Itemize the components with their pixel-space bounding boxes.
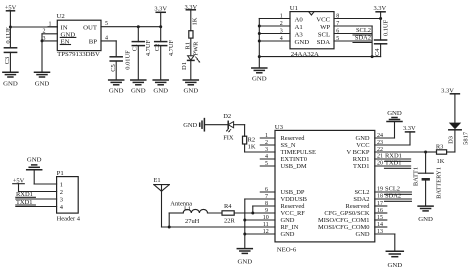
svg-text:L1: L1 xyxy=(184,205,191,212)
ground (under C1) xyxy=(131,80,146,95)
pin 2 U1 A1 xyxy=(259,21,290,27)
svg-text:5: 5 xyxy=(265,161,268,167)
svg-text:GND: GND xyxy=(183,88,198,95)
pin 11 U3 xyxy=(263,222,269,228)
svg-text:1K: 1K xyxy=(248,144,256,151)
wire U3 pin8 tie to VCC_RF xyxy=(251,206,275,215)
node TXD1 net label (header) xyxy=(16,199,57,207)
svg-text:4.7UF: 4.7UF xyxy=(168,39,175,56)
svg-text:1: 1 xyxy=(60,181,63,188)
svg-text:1K: 1K xyxy=(192,17,199,25)
capacitor C1 4.7UF xyxy=(132,27,152,80)
svg-text:2: 2 xyxy=(43,29,46,35)
svg-text:C3: C3 xyxy=(4,57,11,65)
svg-text:RXD1: RXD1 xyxy=(353,156,370,163)
svg-text:TPS79133DBV: TPS79133DBV xyxy=(57,51,100,58)
svg-text:4: 4 xyxy=(265,154,268,160)
svg-text:VCC_RF: VCC_RF xyxy=(281,210,306,217)
svg-text:R4: R4 xyxy=(224,203,232,210)
svg-text:0.01UF: 0.01UF xyxy=(124,50,131,70)
ground (under C5) xyxy=(109,80,124,95)
wire U3 VDDUSB/GND bus xyxy=(243,199,275,248)
svg-text:NEO-6: NEO-6 xyxy=(277,247,297,254)
svg-text:BATTERY1: BATTERY1 xyxy=(436,167,443,199)
wire U3 pin12 GND xyxy=(245,233,275,235)
pin 14 U3 xyxy=(375,222,387,228)
svg-text:D2: D2 xyxy=(223,113,231,120)
svg-text:U1: U1 xyxy=(290,5,298,12)
svg-text:GND: GND xyxy=(3,81,18,88)
pin 10 U3 xyxy=(263,215,269,221)
svg-text:SDA: SDA xyxy=(317,39,331,46)
svg-text:U2: U2 xyxy=(57,13,65,20)
svg-text:VCC: VCC xyxy=(356,142,369,149)
svg-text:C5: C5 xyxy=(110,64,117,72)
svg-text:MISO/CFG_COM1: MISO/CFG_COM1 xyxy=(318,217,370,224)
wire R2 to U3 TIMEPULSE xyxy=(245,151,275,153)
svg-text:OUT: OUT xyxy=(83,24,98,31)
pin 24 U3 GND xyxy=(375,122,395,139)
ground (under C2) xyxy=(153,80,168,95)
power 3.3V (R1 branch) xyxy=(184,4,197,31)
svg-text:SCL2: SCL2 xyxy=(385,186,400,193)
svg-text:GND: GND xyxy=(356,231,370,238)
capacitor C5 0.01UF xyxy=(110,50,131,80)
capacitor C3 0.1UF xyxy=(4,27,17,72)
wire GND to P1 pin1 xyxy=(34,183,56,185)
pin 12 U3 xyxy=(263,229,269,235)
pin 2 U2 xyxy=(42,29,57,35)
wire U3 pin10 GND xyxy=(245,219,275,221)
IC U1 24AA32A xyxy=(290,5,334,58)
svg-text:C4: C4 xyxy=(374,48,381,56)
svg-text:A1: A1 xyxy=(295,24,303,31)
svg-text:SCL: SCL xyxy=(318,31,330,38)
svg-text:3.3V: 3.3V xyxy=(403,125,416,132)
op-amp U2 TPS79133DBV regulator box xyxy=(57,13,102,58)
svg-text:22R: 22R xyxy=(224,217,235,224)
pin 7 U3 xyxy=(265,194,268,200)
svg-text:GND: GND xyxy=(281,217,295,224)
svg-text:6: 6 xyxy=(336,28,339,34)
power 3.3V (above OUT rail) xyxy=(154,6,167,27)
svg-text:18: 18 xyxy=(377,194,383,200)
svg-text:IN: IN xyxy=(61,24,68,31)
ground (above U3 pin24) xyxy=(387,110,402,122)
resistor R2 1K xyxy=(243,136,256,152)
node +5V rail junction xyxy=(9,26,12,29)
svg-text:20: 20 xyxy=(377,161,383,167)
svg-text:GND: GND xyxy=(183,122,197,129)
pin 5 U2 OUT wire xyxy=(101,21,161,27)
diode D3 5817 xyxy=(447,94,469,152)
svg-text:5: 5 xyxy=(336,36,339,42)
svg-text:D1: D1 xyxy=(181,62,188,70)
svg-text:A3: A3 xyxy=(295,31,304,38)
svg-text:GND: GND xyxy=(35,81,50,88)
node RXD1 net label (header) xyxy=(16,191,57,199)
svg-text:SDA2: SDA2 xyxy=(385,193,401,200)
pin 9 U3 xyxy=(265,208,268,214)
pin 3 U1 A3 xyxy=(259,28,290,34)
svg-text:TIMEPULSE: TIMEPULSE xyxy=(281,149,316,156)
svg-text:0.1UF: 0.1UF xyxy=(5,27,12,44)
svg-text:RF_IN: RF_IN xyxy=(281,224,299,231)
resistor R3 1K xyxy=(436,144,455,166)
pin 15 U3 xyxy=(375,215,387,221)
svg-text:Reserved: Reserved xyxy=(281,135,306,142)
svg-text:FIX: FIX xyxy=(223,135,234,142)
svg-text:2: 2 xyxy=(280,21,283,27)
svg-text:3: 3 xyxy=(265,147,268,153)
svg-text:5817: 5817 xyxy=(462,131,469,145)
ground (rotated, at D2) xyxy=(183,119,204,131)
svg-text:7: 7 xyxy=(336,21,339,27)
svg-text:CFG_GPS0/SCK: CFG_GPS0/SCK xyxy=(324,210,369,217)
ground (under C3) xyxy=(3,72,18,87)
svg-text:RXD1: RXD1 xyxy=(385,153,402,160)
node OUT/C1 xyxy=(137,25,140,28)
node OUT/C2/3.3V xyxy=(159,25,162,28)
resistor R1 1K xyxy=(185,17,200,55)
svg-text:27uH: 27uH xyxy=(185,218,200,225)
pin 19 U3 SCL2 xyxy=(375,186,412,195)
power 3.3V (D3 anode) xyxy=(441,88,459,95)
pin 6 U3 xyxy=(260,187,275,193)
connector P1 Header 4 xyxy=(57,170,81,222)
svg-text:GND: GND xyxy=(109,88,124,95)
pin 4 U1 GND xyxy=(259,36,290,42)
pin 18 U3 SDA2 xyxy=(375,193,412,202)
svg-text:C1: C1 xyxy=(132,44,139,52)
capacitor C4 0.1UF xyxy=(374,19,390,57)
svg-text:4: 4 xyxy=(280,36,283,42)
svg-text:TXD1: TXD1 xyxy=(385,160,401,167)
svg-text:VDDUSB: VDDUSB xyxy=(281,196,307,203)
power 3.3V (U3 VCC) xyxy=(403,125,416,132)
antenna E1 xyxy=(154,177,170,227)
battery BATT1 xyxy=(412,152,442,206)
pin 7 U1 WP xyxy=(334,21,372,57)
wire GND to D2 xyxy=(204,124,228,126)
svg-text:0.1UF: 0.1UF xyxy=(382,19,389,36)
wire U2 EN/GND tie xyxy=(41,34,44,72)
svg-text:14: 14 xyxy=(377,222,383,228)
pin 6 U1 SCL / net SCL2 xyxy=(334,27,371,35)
svg-text:BP: BP xyxy=(89,39,98,46)
svg-text:WP: WP xyxy=(320,24,330,31)
pin 5 U1 SDA / net SDA2 xyxy=(334,35,371,43)
svg-text:GND: GND xyxy=(295,39,310,46)
svg-text:SDA2: SDA2 xyxy=(355,35,371,42)
svg-text:11: 11 xyxy=(263,222,269,228)
svg-text:MOSI/CFG_COM0: MOSI/CFG_COM0 xyxy=(318,224,370,231)
svg-text:17: 17 xyxy=(377,201,383,207)
svg-text:BATT1: BATT1 xyxy=(412,167,419,186)
wire +5V rail to U2 IN xyxy=(10,26,57,28)
svg-text:EXTINT0: EXTINT0 xyxy=(281,156,307,163)
pin 3 U3 xyxy=(260,147,275,153)
svg-text:Reserved: Reserved xyxy=(346,203,371,210)
pin 16 U3 xyxy=(375,208,387,214)
svg-text:C2: C2 xyxy=(154,44,161,52)
power 3.3V (U1 VCC) xyxy=(373,5,386,18)
svg-text:22: 22 xyxy=(377,147,383,153)
svg-text:A0: A0 xyxy=(295,16,304,23)
svg-text:10: 10 xyxy=(263,215,269,221)
svg-text:2: 2 xyxy=(265,140,268,146)
svg-text:D3: D3 xyxy=(447,136,454,144)
svg-text:GND: GND xyxy=(418,216,433,223)
svg-text:USB_DM: USB_DM xyxy=(281,163,307,170)
IC U3 NEO-6 xyxy=(275,124,375,254)
svg-text:5: 5 xyxy=(105,21,108,27)
svg-text:8: 8 xyxy=(265,201,268,207)
pin 4 U3 xyxy=(260,154,275,160)
wire D2 to R2 xyxy=(234,125,245,137)
svg-text:R2: R2 xyxy=(248,136,256,143)
svg-text:1: 1 xyxy=(49,22,52,28)
ground (U1 bus) xyxy=(252,68,267,83)
wire R4 to U3 VCC_RF xyxy=(234,212,275,214)
pin 17 U3 xyxy=(375,201,387,207)
svg-text:2: 2 xyxy=(60,189,63,196)
svg-text:4.7UF: 4.7UF xyxy=(145,39,152,56)
pin 3 U2 xyxy=(42,36,57,42)
svg-text:3: 3 xyxy=(280,28,283,34)
pin 13 U3 GND xyxy=(375,229,395,251)
svg-text:SCL2: SCL2 xyxy=(354,189,369,196)
resistor R4 22R xyxy=(222,203,235,224)
capacitor C2 4.7UF xyxy=(154,27,175,80)
svg-text:TXD1: TXD1 xyxy=(353,163,369,170)
svg-text:GND: GND xyxy=(387,110,402,117)
svg-text:SCL2: SCL2 xyxy=(356,27,371,34)
pin 1 U3 xyxy=(260,133,275,139)
pin 23 U3 VCC xyxy=(375,132,410,146)
pin 8 U3 xyxy=(265,201,268,207)
svg-text:SDA2: SDA2 xyxy=(353,196,369,203)
svg-text:PWR: PWR xyxy=(193,41,200,56)
pin 20 U3 TXD1 xyxy=(375,160,411,169)
pin 1 U2 xyxy=(48,22,57,28)
ground (above header P1) xyxy=(27,156,42,184)
svg-text:16: 16 xyxy=(377,208,383,214)
svg-text:VCC: VCC xyxy=(316,16,330,23)
svg-text:12: 12 xyxy=(263,229,269,235)
svg-text:1: 1 xyxy=(280,13,283,19)
svg-text:3: 3 xyxy=(60,196,63,203)
svg-text:6: 6 xyxy=(265,187,268,193)
wire U1 left bus xyxy=(258,19,261,68)
svg-text:Header 4: Header 4 xyxy=(57,215,81,222)
ground (under U3 pin13) xyxy=(386,251,403,268)
LED D2 FIX xyxy=(223,113,234,141)
svg-text:Reserved: Reserved xyxy=(281,203,306,210)
svg-text:GND: GND xyxy=(27,156,42,163)
pin 22 U3 V_BCKP xyxy=(375,147,437,154)
ground (under BATT1) xyxy=(418,206,433,223)
node +5V net label (header) xyxy=(13,178,57,192)
svg-text:19: 19 xyxy=(377,187,383,193)
svg-text:24: 24 xyxy=(377,133,383,139)
pin 1 U1 A0 xyxy=(259,13,290,19)
wire antenna to U3 RF_IN xyxy=(162,226,276,229)
svg-text:GND: GND xyxy=(131,88,146,95)
svg-text:U3: U3 xyxy=(275,124,284,131)
pin 4 U2 BP wire xyxy=(101,35,116,56)
svg-text:GND: GND xyxy=(356,135,370,142)
ground (U2 GND/EN) xyxy=(35,72,50,87)
svg-text:23: 23 xyxy=(377,140,383,146)
svg-text:P1: P1 xyxy=(57,170,64,177)
svg-text:8: 8 xyxy=(336,13,339,19)
svg-text:USB_DP: USB_DP xyxy=(281,189,305,196)
svg-text:4: 4 xyxy=(105,35,108,41)
svg-text:E1: E1 xyxy=(154,177,161,184)
svg-text:V BCKP: V BCKP xyxy=(347,149,370,156)
svg-text:9: 9 xyxy=(265,208,268,214)
svg-text:GND: GND xyxy=(281,231,295,238)
svg-text:GND: GND xyxy=(237,259,252,266)
ground (under D1) xyxy=(183,80,198,95)
pin 5 U3 xyxy=(260,161,275,167)
LED D1 PWR xyxy=(181,56,200,80)
svg-text:21: 21 xyxy=(377,154,383,160)
power +5V (top-left) xyxy=(5,5,17,27)
ground (under U3 left bus) xyxy=(237,249,252,266)
svg-text:1K: 1K xyxy=(437,158,445,165)
inductor L1 27uH xyxy=(169,201,222,227)
svg-text:R3: R3 xyxy=(436,144,444,151)
svg-text:GND: GND xyxy=(153,88,168,95)
svg-text:7: 7 xyxy=(265,194,268,200)
pin 8 U1 VCC xyxy=(334,13,382,20)
svg-text:GND: GND xyxy=(387,262,402,269)
pin 21 U3 RXD1 xyxy=(375,153,411,162)
svg-text:15: 15 xyxy=(377,215,383,221)
svg-text:SS_N: SS_N xyxy=(281,142,296,149)
wire U1 bottom rail xyxy=(259,55,380,58)
svg-text:1: 1 xyxy=(265,133,268,139)
svg-text:GND: GND xyxy=(252,76,267,83)
svg-text:13: 13 xyxy=(377,229,383,235)
pin 2 U3 xyxy=(260,140,275,146)
